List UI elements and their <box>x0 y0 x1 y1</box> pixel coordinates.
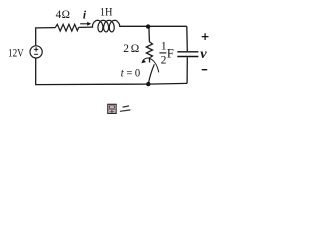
capacitor C1 top plate <box>177 51 198 53</box>
polarity plus sign <box>202 33 209 40</box>
svg-text:4Ω: 4Ω <box>56 9 70 21</box>
svg-text:v: v <box>200 47 207 62</box>
wire inductor to top-right corner <box>119 25 187 27</box>
switch closing arc <box>142 58 159 72</box>
wire between resistor and inductor <box>79 26 94 28</box>
wire resistor to switch contact <box>148 58 150 63</box>
switch SW1 blade <box>148 64 154 83</box>
voltage source minus <box>34 53 38 55</box>
voltage source plus <box>34 47 38 51</box>
svg-text:12V: 12V <box>8 47 24 59</box>
wire node to 2ohm branch <box>148 27 151 42</box>
capacitor C1 bottom plate <box>177 56 198 58</box>
wire top-left vertical <box>36 28 56 46</box>
wire bottom node to bottom-right corner <box>148 82 187 85</box>
caption glyph 圖 <box>108 104 116 113</box>
node junction dot top <box>146 24 150 28</box>
wire capacitor to bottom-right corner <box>186 57 188 83</box>
voltage source VS circle <box>30 46 42 58</box>
resistor R1 4ohm zigzag <box>55 24 78 31</box>
svg-text:i: i <box>83 10 87 22</box>
svg-text:2Ω: 2Ω <box>123 43 139 55</box>
resistor R2 2ohm vertical zigzag <box>146 42 152 58</box>
wire top-right vertical to capacitor <box>186 26 189 51</box>
polarity minus sign <box>202 69 208 71</box>
caption glyph 二 <box>120 106 130 111</box>
svg-text:t = 0: t = 0 <box>121 67 141 79</box>
current arrow i <box>80 23 88 25</box>
inductor L1 coil <box>92 20 120 32</box>
svg-text:1H: 1H <box>100 5 113 18</box>
wire source bottom to bottom-left corner <box>36 58 149 85</box>
svg-text:2: 2 <box>161 54 167 66</box>
node junction dot bottom <box>146 82 150 86</box>
switch arrowhead <box>141 59 146 63</box>
svg-text:F: F <box>167 46 174 60</box>
